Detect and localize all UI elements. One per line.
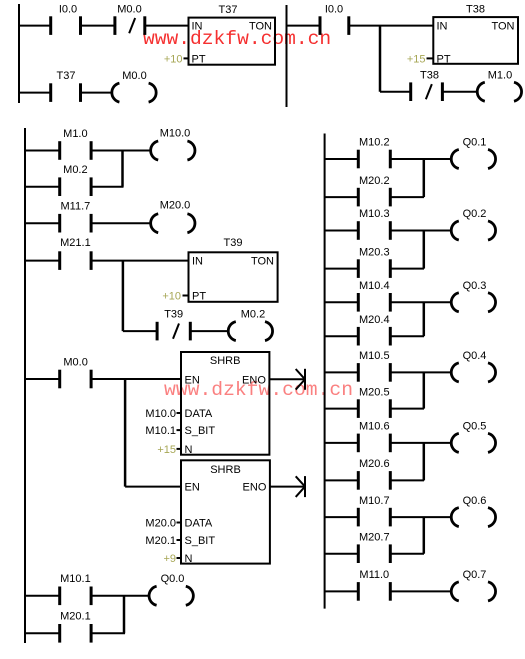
coil Q0.3 (451, 280, 495, 312)
svg-text:M20.1: M20.1 (145, 535, 176, 547)
junction vertical to T39 branch (122, 261, 125, 332)
value +15 at T38 PT (407, 53, 433, 65)
coil Q0.2 (451, 208, 495, 240)
operand M10.0 at DATA pin (145, 408, 181, 420)
coil Q0.5 (451, 421, 495, 453)
wire rail to M10.1 (25, 595, 60, 597)
contact M20.3 (358, 246, 390, 278)
svg-text:T37: T37 (219, 4, 238, 16)
wire M10.7 to coil Q0.6 (390, 516, 451, 518)
coil Q0.7 (451, 569, 495, 601)
svg-text:Q0.2: Q0.2 (463, 208, 487, 220)
wire M11.7 to coil M20.0 (91, 222, 150, 224)
svg-text:PT: PT (437, 53, 451, 65)
svg-text:EN: EN (185, 482, 200, 494)
contact M0.0 network 3 (60, 357, 91, 389)
wire M0.0 to SHRB EN (91, 378, 181, 380)
contact M11.0 (358, 569, 390, 601)
svg-text:S_BIT: S_BIT (185, 425, 216, 437)
svg-text:N: N (185, 553, 193, 565)
svg-text:Q0.5: Q0.5 (463, 421, 487, 433)
svg-text:TON: TON (491, 21, 514, 33)
svg-text:M20.0: M20.0 (145, 518, 176, 530)
left power rail main network (24, 128, 26, 643)
svg-text:SHRB: SHRB (210, 464, 241, 476)
wire rail to M20.5 (325, 408, 359, 410)
contact M20.6 (358, 458, 390, 490)
svg-text:M20.4: M20.4 (359, 314, 390, 326)
parallel junction vertical M1.0/M0.2 (121, 151, 124, 187)
contact M10.2 (358, 137, 390, 169)
coil Q0.0 (149, 573, 193, 606)
svg-text:M20.5: M20.5 (359, 386, 390, 398)
svg-text:I0.0: I0.0 (59, 4, 77, 16)
svg-text:Q0.0: Q0.0 (161, 573, 185, 585)
svg-text:M0.2: M0.2 (241, 309, 265, 321)
wire M20.7 to junction (390, 553, 424, 555)
wire rail to M20.1 (25, 632, 60, 634)
wire T37 contact to coil M0.0 (81, 92, 113, 94)
wire rail to M1.0 (25, 150, 60, 152)
wire rail to M10.5 (325, 371, 359, 373)
svg-text:M10.0: M10.0 (160, 128, 191, 140)
svg-text:T39: T39 (164, 309, 183, 321)
svg-text:+10: +10 (162, 290, 181, 302)
wire M20.5 to junction (390, 408, 424, 410)
left power rail right network (324, 134, 326, 609)
shift-register SHRB box 2 (181, 460, 270, 565)
wire rail to M11.0 (325, 590, 359, 592)
svg-text:M11.7: M11.7 (61, 201, 91, 213)
ENO output arrow SHRB 1 (269, 369, 305, 390)
svg-text:M20.0: M20.0 (160, 200, 191, 212)
svg-text:M10.6: M10.6 (359, 421, 390, 433)
value +10 at T39 PT (162, 290, 188, 302)
wire M20.3 to junction (390, 268, 424, 270)
svg-text:M10.2: M10.2 (359, 137, 390, 149)
contact M21.1 (60, 237, 91, 270)
wire I0.0 to timer T38 IN (349, 25, 434, 27)
contact M1.0 (60, 128, 91, 160)
wire M20.6 to junction (390, 479, 424, 481)
svg-text:T37: T37 (57, 70, 76, 82)
svg-text:www.dzkfw.com.cn: www.dzkfw.com.cn (143, 28, 331, 50)
wire M10.6 to coil Q0.5 (390, 442, 451, 444)
coil Q0.6 (451, 495, 495, 527)
contact M10.1 (60, 573, 91, 605)
svg-text:M20.7: M20.7 (359, 531, 390, 543)
timer T39 TON box (189, 237, 278, 302)
contact I0.0 network 2 (320, 4, 349, 35)
svg-text:SHRB: SHRB (210, 355, 241, 367)
svg-text:EN: EN (185, 374, 200, 386)
svg-text:T38: T38 (466, 4, 485, 16)
wire M10.3 to coil Q0.2 (390, 230, 451, 232)
svg-text:M20.2: M20.2 (359, 175, 390, 187)
wire M10.4 to coil Q0.3 (390, 301, 451, 303)
contact M0.2 (60, 164, 91, 196)
contact M10.3 (358, 208, 390, 240)
wire rung 2 rail to T37 contact (19, 92, 51, 94)
wire branch to T39 contact (123, 330, 157, 332)
junction vertical to second SHRB (124, 379, 127, 487)
wire M20.2 to junction (390, 196, 424, 198)
wire T39 contact to coil M0.2 (190, 330, 228, 332)
parallel junction vertical M10.4/M20.4 (423, 302, 426, 336)
svg-text:TON: TON (249, 21, 272, 33)
wire T38 contact to coil M1.0 (442, 91, 477, 93)
wire rail to M20.6 (325, 479, 359, 481)
junction vertical to T38 branch (379, 26, 382, 92)
wire rail to M20.7 (325, 553, 359, 555)
svg-text:M0.0: M0.0 (122, 70, 146, 82)
svg-text:DATA: DATA (185, 408, 213, 420)
contact I0.0 (51, 4, 81, 35)
left power rail network 1 (18, 4, 20, 103)
wire M10.1 to coil Q0.0 (91, 595, 149, 597)
coil Q0.4 (451, 350, 495, 382)
svg-text:M0.0: M0.0 (117, 4, 141, 16)
parallel junction vertical M10.7/M20.7 (423, 517, 426, 554)
svg-text:M10.4: M10.4 (359, 280, 390, 292)
wire M1.0 to coil M10.0 (91, 150, 150, 152)
operand M20.1 at S_BIT pin (145, 535, 181, 547)
wire rail to M10.3 (325, 230, 359, 232)
svg-text:+15: +15 (407, 53, 426, 65)
svg-text:IN: IN (192, 256, 203, 268)
svg-text:I0.0: I0.0 (325, 4, 343, 16)
parallel junction vertical M10.5/M20.5 (423, 372, 426, 408)
timer T37 TON box (189, 4, 276, 65)
wire rail to M11.7 (25, 222, 60, 224)
wire M20.4 to junction (390, 335, 424, 337)
svg-text:+15: +15 (157, 444, 176, 456)
svg-text:M20.3: M20.3 (359, 246, 390, 258)
svg-text:TON: TON (251, 256, 274, 268)
wire rail to M10.6 (325, 442, 359, 444)
wire M0.0 to timer T37 IN (145, 25, 189, 27)
shift-register SHRB box 1 (181, 352, 269, 456)
svg-text:Q0.6: Q0.6 (463, 495, 487, 507)
svg-text:M10.5: M10.5 (359, 350, 390, 362)
wire M10.5 to coil Q0.4 (390, 371, 451, 373)
coil Q0.1 (451, 137, 495, 169)
svg-text:DATA: DATA (185, 518, 213, 530)
wire M11.0 to coil Q0.7 (390, 590, 451, 592)
svg-text:M10.3: M10.3 (359, 208, 390, 220)
wire branch to T38 contact (380, 91, 411, 93)
svg-text:ENO: ENO (243, 482, 267, 494)
wire junction to SHRB 2 EN (125, 486, 181, 488)
svg-text:M10.1: M10.1 (60, 573, 91, 585)
svg-text:M1.0: M1.0 (488, 70, 512, 82)
svg-text:IN: IN (437, 21, 448, 33)
wire rail to M0.0 (25, 378, 60, 380)
svg-text:M10.1: M10.1 (145, 425, 176, 437)
svg-text:Q0.4: Q0.4 (463, 350, 487, 362)
svg-text:ENO: ENO (242, 374, 266, 386)
svg-text:S_BIT: S_BIT (185, 535, 216, 547)
coil M20.0 (151, 200, 195, 233)
wire rail to I0.0 contact (287, 25, 321, 27)
wire M20.1 to junction (91, 632, 125, 634)
svg-text:N: N (185, 444, 193, 456)
svg-text:Q0.1: Q0.1 (463, 137, 487, 149)
contact M10.7 (358, 495, 390, 527)
operand M20.0 at DATA pin (145, 518, 181, 530)
contact M10.5 (358, 350, 390, 382)
parallel junction vertical M10.2/M20.2 (423, 159, 426, 197)
wire rail to M10.4 (325, 301, 359, 303)
svg-text:T38: T38 (420, 70, 439, 82)
contact M20.2 (358, 175, 390, 207)
coil M10.0 (151, 128, 195, 161)
svg-text:Q0.3: Q0.3 (463, 280, 487, 292)
svg-text:+9: +9 (163, 553, 176, 565)
svg-text:M11.0: M11.0 (359, 569, 389, 581)
svg-text:T39: T39 (224, 237, 243, 249)
contact M20.7 (358, 531, 390, 563)
value +10 at T37 PT (164, 53, 189, 65)
svg-text:PT: PT (192, 53, 206, 65)
wire rail to M10.7 (325, 516, 359, 518)
wire rail to M20.4 (325, 335, 359, 337)
timer T38 TON box (433, 4, 518, 66)
ENO output arrow SHRB 2 (270, 476, 305, 497)
svg-text:+10: +10 (164, 53, 183, 65)
svg-text:PT: PT (192, 290, 206, 302)
parallel junction vertical M10.3/M20.3 (423, 231, 426, 269)
wire M0.2 to junction (91, 186, 123, 188)
wire rail to M20.2 (325, 196, 359, 198)
contact M20.1 (60, 610, 91, 642)
contact M10.4 (358, 280, 390, 312)
svg-text:M21.1: M21.1 (60, 237, 91, 249)
left power rail network 2 (286, 5, 288, 107)
value +9 at N pin (163, 553, 181, 565)
contact M20.5 (358, 386, 390, 418)
wire rail to M21.1 (25, 260, 60, 262)
parallel junction vertical M10.1/M20.1 (123, 596, 126, 634)
svg-text:M10.7: M10.7 (359, 495, 390, 507)
contact M20.4 (358, 314, 390, 346)
value +15 at N pin (157, 444, 181, 456)
svg-text:Q0.7: Q0.7 (463, 569, 487, 581)
svg-text:M0.2: M0.2 (63, 164, 87, 176)
wire rail to M10.2 (325, 158, 359, 160)
parallel junction vertical M10.6/M20.6 (423, 443, 426, 481)
contact T38 normally-closed (411, 70, 443, 101)
svg-text:IN: IN (192, 21, 203, 33)
wire I0.0 to M0.0 (81, 25, 115, 27)
coil M0.0 (112, 70, 156, 102)
coil M0.2 (228, 309, 272, 341)
contact M0.0 normally-closed (115, 4, 145, 35)
contact T39 normally-closed (157, 309, 190, 341)
wire M21.1 to timer T39 IN (91, 260, 188, 262)
svg-text:M1.0: M1.0 (63, 128, 87, 140)
contact M10.6 (358, 421, 390, 453)
wire rung 1 rail to I0.0 (19, 25, 51, 27)
wire M10.2 to coil Q0.1 (390, 158, 451, 160)
coil M1.0 (477, 70, 521, 102)
svg-text:M20.1: M20.1 (60, 610, 91, 622)
svg-text:M10.0: M10.0 (145, 408, 176, 420)
wire rail to M0.2 (25, 186, 60, 188)
svg-text:M0.0: M0.0 (63, 357, 87, 369)
operand M10.1 at S_BIT pin (145, 425, 181, 437)
wire rail to M20.3 (325, 268, 359, 270)
contact M11.7 (60, 201, 91, 233)
svg-text:M20.6: M20.6 (359, 458, 390, 470)
contact T37 (51, 70, 81, 102)
